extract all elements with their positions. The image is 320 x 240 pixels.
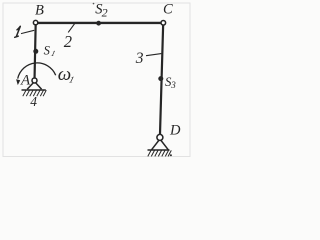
svg-text:D: D	[169, 123, 181, 139]
svg-text:B: B	[35, 2, 44, 18]
svg-text:2: 2	[102, 6, 108, 20]
svg-text:3: 3	[135, 50, 144, 67]
svg-text:C: C	[163, 2, 173, 18]
svg-text:3: 3	[170, 80, 176, 90]
svg-text:S: S	[44, 44, 51, 58]
svg-text:A: A	[20, 73, 31, 89]
svg-text:2: 2	[64, 32, 72, 51]
svg-text:4: 4	[30, 94, 37, 109]
